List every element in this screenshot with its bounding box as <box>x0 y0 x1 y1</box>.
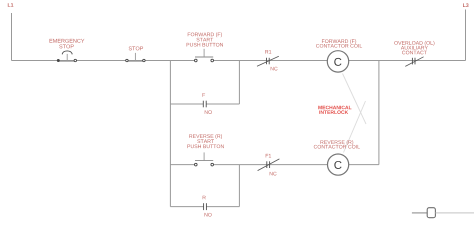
label R <box>203 196 206 200</box>
wire rung2 segment right <box>349 164 379 166</box>
wire left branch vertical (junction A) <box>169 61 171 207</box>
wire R seal-in branch bottom <box>170 206 239 208</box>
node L1 <box>8 3 14 7</box>
contact R (NO seal-in) <box>204 203 207 210</box>
contact F (NO seal-in) <box>203 101 206 108</box>
node L3 <box>463 3 469 7</box>
wire F seal-in branch bottom <box>170 103 239 105</box>
zoom slider track left <box>412 212 427 214</box>
label NC (R1 contact) <box>271 67 278 71</box>
zoom slider handle <box>427 208 435 218</box>
label EMERGENCY STOP <box>50 39 85 48</box>
wire rung2 segment left <box>170 164 195 166</box>
contact F1 (NC interlock) <box>258 159 280 171</box>
stop push button PB2 <box>126 53 145 62</box>
label R1 <box>265 50 271 54</box>
emergency stop push button PB1 <box>57 51 76 62</box>
label REVERSE (R) CONTACTOR COIL <box>314 140 360 148</box>
wire junction B2 vertical lower <box>238 165 240 207</box>
wire junction B vertical upper <box>238 61 240 105</box>
label F <box>203 93 206 97</box>
label FORWARD (F) CONTACTOR COIL <box>316 39 362 47</box>
wire L3 rail <box>465 10 467 61</box>
label OVERLOAD (OL) AUXILIARY CONTACT <box>394 41 434 54</box>
label FORWARD (F) START PUSH BUTTON <box>187 32 223 46</box>
forward start push button PB3 <box>195 49 214 62</box>
label NO (R contact) <box>205 213 212 217</box>
wire L1 rail <box>11 13 13 61</box>
contact R1 (NC interlock) <box>257 56 279 66</box>
zoom slider track right <box>436 212 474 214</box>
wire rung2 joining vertical <box>378 61 380 165</box>
contact OL (overload auxiliary NC) <box>405 57 423 67</box>
wire rung1 segment middle <box>213 60 327 62</box>
mechanical interlock linkage lines <box>343 74 367 153</box>
wire rung1 segment right <box>349 60 466 62</box>
label F1 <box>266 154 271 158</box>
label NO (F contact) <box>205 110 212 114</box>
label NC (F1 contact) <box>270 172 277 176</box>
reverse start push button PB4 <box>195 152 214 166</box>
wire rung1 segment left <box>12 60 196 62</box>
wire rung2 segment middle <box>213 164 328 166</box>
label REVERSE (R) START PUSH BUTTON <box>187 134 223 148</box>
coil forward contactor C <box>327 51 348 72</box>
label STOP <box>129 46 143 50</box>
label MECHANICAL INTERLOCK <box>318 106 351 114</box>
coil reverse contactor C <box>328 154 349 175</box>
